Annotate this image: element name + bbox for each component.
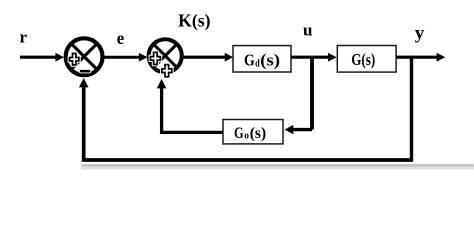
wire S1 to S2 with arrow — [101, 53, 148, 62]
block Gd — [233, 46, 291, 72]
wire G to output y with arrow — [396, 53, 445, 62]
wire Gd to block G with arrow — [291, 53, 337, 62]
svg-text:(s): (s) — [361, 50, 375, 69]
summing junction S2 — [149, 39, 182, 72]
svg-text:(s): (s) — [260, 50, 280, 69]
node u: vertical drop to inner feedback — [310, 56, 314, 130]
svg-text:e: e — [117, 28, 125, 48]
wire S2 to block Gd with arrow — [182, 53, 233, 62]
svg-text:o: o — [244, 131, 249, 142]
minus sign (feedback input) on S1 — [80, 70, 91, 73]
svg-text:G: G — [234, 124, 244, 142]
svg-text:G: G — [244, 50, 255, 69]
summing junction S1 — [66, 38, 103, 75]
svg-text:r: r — [20, 28, 28, 47]
svg-text:u: u — [303, 21, 312, 40]
svg-text:K(s): K(s) — [178, 11, 210, 31]
label Gd(s) — [244, 50, 280, 69]
svg-text:y: y — [415, 23, 425, 43]
wire Go output to S2 bottom input — [157, 79, 223, 132]
wire: input r arrow into summer S1 — [20, 53, 64, 62]
svg-text:(s): (s) — [250, 124, 266, 142]
label G(s) — [351, 50, 375, 69]
plus sign (inner feedback input) on S2 — [162, 65, 172, 77]
block Go — [223, 120, 283, 144]
label Go(s) — [234, 124, 266, 142]
wire outer loop: y node down, across bottom, up to S1 bottom input — [79, 56, 413, 160]
block G — [337, 46, 396, 73]
plus sign (r input) on S1 — [70, 54, 79, 65]
plus sign (e input) on S2 — [150, 52, 160, 64]
svg-text:G: G — [351, 50, 361, 69]
wire inner loop: u node into Go with left arrow — [285, 125, 313, 134]
